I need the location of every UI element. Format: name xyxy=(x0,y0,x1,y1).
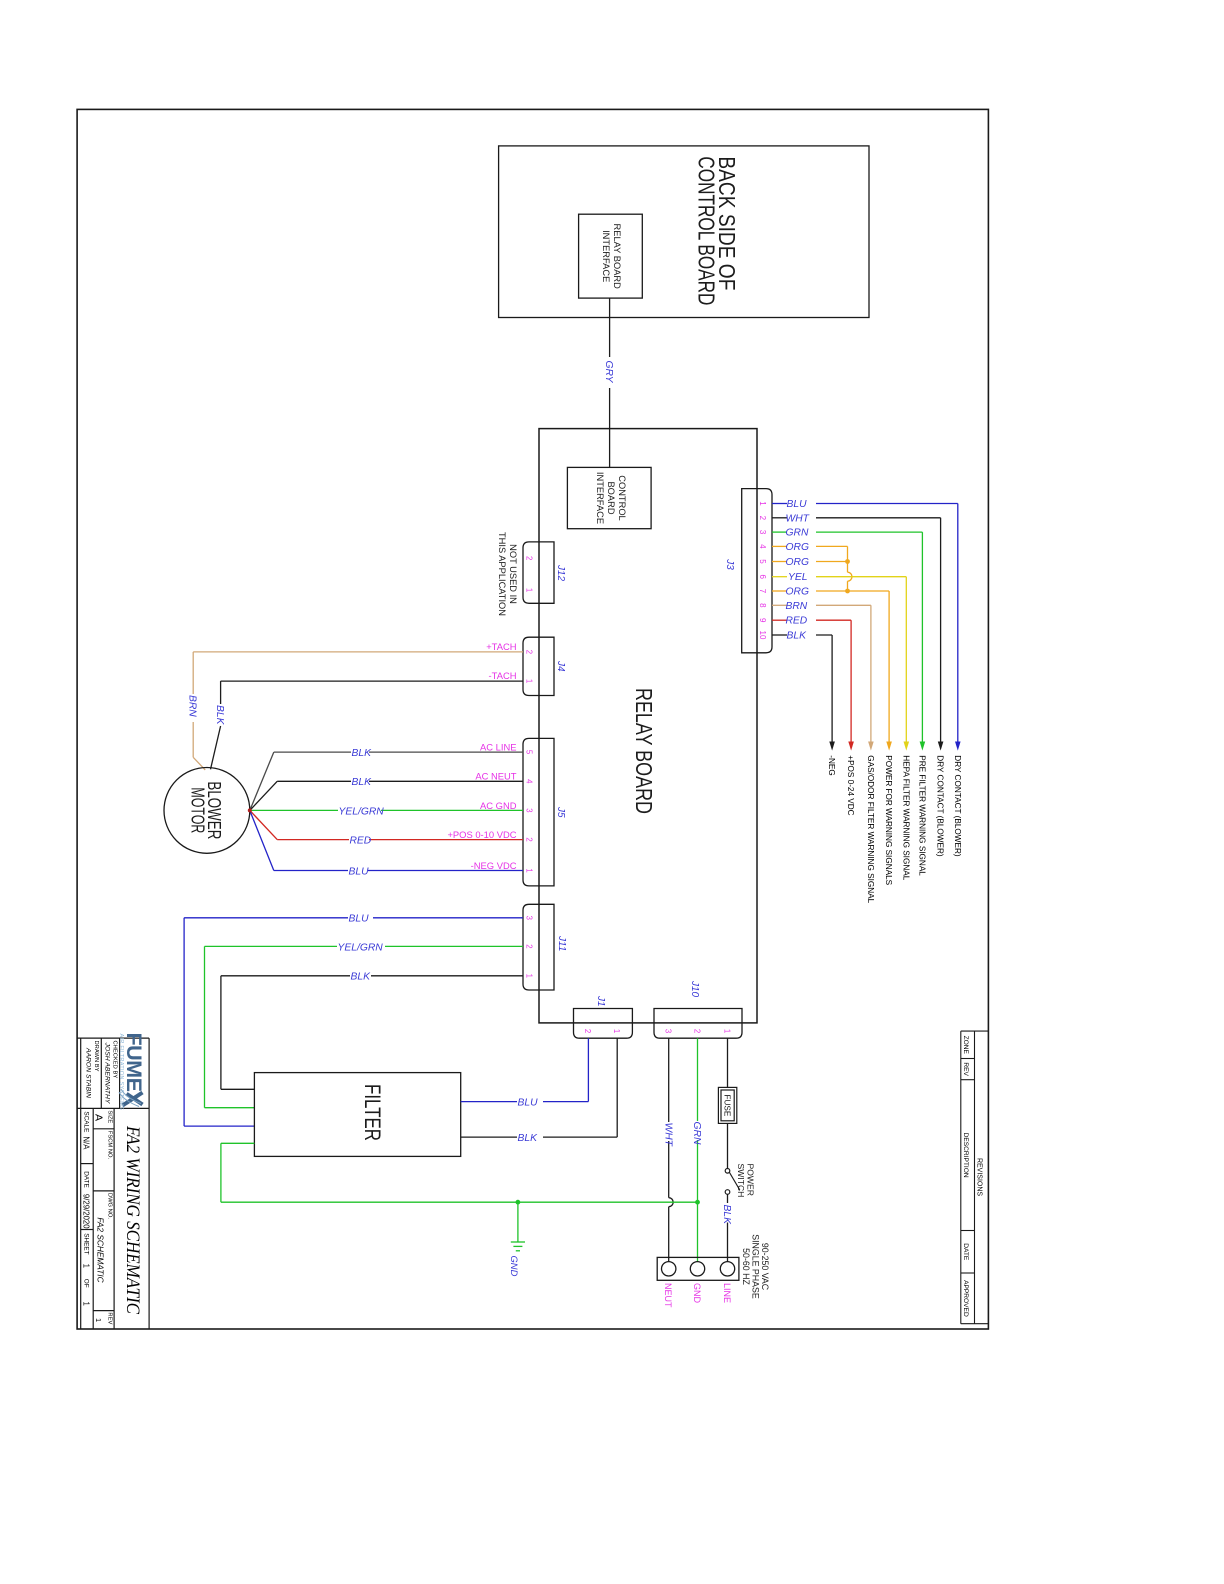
svg-text:2: 2 xyxy=(583,1029,592,1033)
svg-text:AC NEUT: AC NEUT xyxy=(475,771,516,782)
power switch SW1 xyxy=(725,1169,740,1195)
connector J3 xyxy=(742,489,772,653)
svg-text:REVISIONS: REVISIONS xyxy=(975,1158,982,1196)
svg-text:ORG: ORG xyxy=(786,557,809,568)
svg-text:DESCRIPTION: DESCRIPTION xyxy=(962,1133,969,1178)
revision table xyxy=(961,1031,989,1324)
connector J12 xyxy=(523,542,554,603)
svg-text:FUSE: FUSE xyxy=(722,1094,731,1116)
svg-text:2: 2 xyxy=(525,837,534,841)
svg-text:3: 3 xyxy=(525,808,534,812)
J3 signal labels xyxy=(827,755,962,903)
border frame xyxy=(77,109,988,1329)
svg-text:BLU: BLU xyxy=(518,1098,539,1109)
svg-text:DRY CONTACT (BLOWER): DRY CONTACT (BLOWER) xyxy=(936,755,945,857)
svg-text:J1: J1 xyxy=(595,995,606,1007)
svg-text:-NEG: -NEG xyxy=(827,755,836,775)
node GND tap junction xyxy=(516,1200,521,1205)
connector J10 xyxy=(654,1009,742,1039)
filter box xyxy=(254,1073,460,1157)
svg-text:REV: REV xyxy=(106,1312,112,1324)
svg-text:4: 4 xyxy=(525,779,534,784)
svg-text:FSCM NO.: FSCM NO. xyxy=(106,1131,112,1160)
svg-text:BLK: BLK xyxy=(721,1205,732,1226)
wire YEL/GRN AC GND pin3 xyxy=(250,809,523,811)
svg-text:50-60 HZ: 50-60 HZ xyxy=(741,1248,751,1285)
svg-text:GND: GND xyxy=(509,1256,520,1277)
svg-text:SHEET: SHEET xyxy=(83,1233,90,1254)
FUMEX logo xyxy=(118,1033,146,1111)
svg-text:GND: GND xyxy=(692,1283,702,1304)
wire RED J3 pin9 xyxy=(772,620,851,742)
svg-text:J10: J10 xyxy=(689,980,700,998)
terminal LINE xyxy=(720,1262,734,1276)
terminal GND xyxy=(690,1262,704,1276)
svg-text:J4: J4 xyxy=(555,660,566,672)
svg-text:FA2 SCHEMATIC: FA2 SCHEMATIC xyxy=(96,1217,106,1283)
svg-text:+POS 0-10 VDC: +POS 0-10 VDC xyxy=(447,829,516,840)
svg-text:DRY CONTACT (BLOWER): DRY CONTACT (BLOWER) xyxy=(953,755,962,857)
svg-text:AARON STABIN: AARON STABIN xyxy=(85,1047,92,1098)
svg-text:APPROVED: APPROVED xyxy=(962,1280,969,1317)
title text xyxy=(82,1041,144,1325)
wire ORG J3 pin7 xyxy=(772,591,889,742)
svg-text:BLK: BLK xyxy=(352,748,373,759)
svg-text:ORG: ORG xyxy=(786,542,809,553)
svg-text:SWITCH: SWITCH xyxy=(736,1164,746,1198)
svg-text:3: 3 xyxy=(664,1029,673,1033)
svg-text:10: 10 xyxy=(758,631,767,640)
svg-text:N/A: N/A xyxy=(82,1136,91,1150)
svg-text:WHT: WHT xyxy=(786,513,810,524)
svg-text:BLU: BLU xyxy=(349,866,370,877)
connector J4 xyxy=(523,637,554,695)
J3 pin numbers xyxy=(758,501,767,640)
J12 pin numbers xyxy=(525,556,534,592)
terminal block power entry xyxy=(657,1257,739,1280)
svg-text:FA2 WIRING SCHEMATIC: FA2 WIRING SCHEMATIC xyxy=(122,1125,143,1314)
svg-text:REV: REV xyxy=(962,1062,969,1076)
svg-text:1: 1 xyxy=(525,679,534,683)
svg-text:DWG NO.: DWG NO. xyxy=(106,1193,112,1219)
svg-text:9/29/2020: 9/29/2020 xyxy=(82,1194,91,1229)
blower motor xyxy=(164,768,250,854)
svg-text:GRN: GRN xyxy=(691,1122,702,1145)
svg-text:POWER FOR WARNING SIGNALS: POWER FOR WARNING SIGNALS xyxy=(884,755,893,885)
fuse F1 xyxy=(718,1087,736,1123)
connector J5 xyxy=(523,738,554,886)
svg-text:AIR FILTRATION SYSTEMS: AIR FILTRATION SYSTEMS xyxy=(118,1034,124,1111)
svg-text:5: 5 xyxy=(758,559,767,564)
svg-text:1: 1 xyxy=(758,501,767,506)
svg-text:DRAWN BY: DRAWN BY xyxy=(93,1041,99,1072)
svg-text:J3: J3 xyxy=(724,558,735,570)
svg-text:AC LINE: AC LINE xyxy=(480,742,516,753)
svg-text:BRN: BRN xyxy=(187,695,198,717)
svg-text:LINE: LINE xyxy=(722,1283,732,1303)
svg-text:RED: RED xyxy=(786,616,808,627)
svg-text:8: 8 xyxy=(758,603,767,608)
wire BLK J11 pin1 xyxy=(221,976,523,1090)
wire BRN tach pin2 xyxy=(193,652,523,770)
svg-text:YEL/GRN: YEL/GRN xyxy=(338,942,384,953)
svg-text:GRY: GRY xyxy=(603,361,614,384)
svg-text:+TACH: +TACH xyxy=(486,641,516,652)
J1 pin numbers xyxy=(583,1029,621,1033)
wire YEL/GRN J11 pin2 xyxy=(205,946,524,1107)
svg-text:ORG: ORG xyxy=(786,587,809,598)
J10 pin numbers xyxy=(664,1029,732,1033)
wire GRY xyxy=(609,298,611,467)
svg-text:NOT USED IN: NOT USED IN xyxy=(508,544,518,604)
svg-text:1: 1 xyxy=(94,1318,103,1322)
note NOT USED IN THIS APPLICATION xyxy=(497,532,518,616)
wire BLK J10 pin1 to fuse xyxy=(727,1038,729,1262)
wire YEL J3 pin6 xyxy=(772,577,906,742)
connector J11 xyxy=(523,904,554,990)
node motor junction xyxy=(248,808,252,812)
svg-text:2: 2 xyxy=(525,556,534,560)
svg-text:-NEG VDC: -NEG VDC xyxy=(471,860,517,871)
ground symbol xyxy=(511,1242,525,1251)
svg-text:GAS/ODOR FILTER WARNING SIGNAL: GAS/ODOR FILTER WARNING SIGNAL xyxy=(866,755,875,903)
svg-text:BLU: BLU xyxy=(349,914,370,925)
svg-text:BLK: BLK xyxy=(787,631,808,642)
svg-text:A: A xyxy=(93,1114,105,1121)
svg-text:YEL/GRN: YEL/GRN xyxy=(339,806,385,817)
relay board interface box xyxy=(579,214,643,298)
svg-text:BLK: BLK xyxy=(352,777,373,788)
svg-text:1: 1 xyxy=(525,974,534,978)
svg-text:6: 6 xyxy=(758,574,767,579)
wire BLU J11 pin3 xyxy=(184,918,523,1126)
svg-text:+POS 0-24 VDC: +POS 0-24 VDC xyxy=(846,755,855,815)
wire ORG J3 pin4 jumper xyxy=(772,546,852,591)
wire BLU J1 pin2 xyxy=(461,1038,589,1101)
svg-text:3: 3 xyxy=(758,530,767,535)
wire BLK AC NEUT pin4 xyxy=(250,781,523,810)
svg-text:FILTER: FILTER xyxy=(360,1084,385,1141)
svg-text:5: 5 xyxy=(525,750,534,755)
svg-text:BLK: BLK xyxy=(518,1133,539,1144)
wire BLU J3 pin1 xyxy=(772,504,958,743)
svg-text:2: 2 xyxy=(525,650,534,654)
svg-text:CONTROL: CONTROL xyxy=(617,475,627,520)
wire BLK J1 pin1 xyxy=(461,1038,618,1137)
svg-text:POWER: POWER xyxy=(746,1164,756,1196)
svg-text:1: 1 xyxy=(525,868,534,872)
wire BLK J3 pin10 xyxy=(772,635,832,742)
svg-text:9: 9 xyxy=(758,618,767,623)
svg-text:NEUT: NEUT xyxy=(663,1283,673,1308)
wire to ground xyxy=(517,1202,519,1242)
relay board box xyxy=(539,429,757,1023)
svg-text:DATE: DATE xyxy=(83,1171,90,1188)
svg-text:AC GND: AC GND xyxy=(480,800,517,811)
svg-text:2: 2 xyxy=(758,516,767,521)
svg-text:2: 2 xyxy=(525,944,534,948)
wire GRN filter to gnd/j10 xyxy=(221,1143,698,1202)
terminal NEUT xyxy=(662,1262,676,1276)
wire WHT J3 pin2 xyxy=(772,518,941,742)
control board interface box xyxy=(567,467,651,528)
wire BLK AC LINE pin5 xyxy=(250,752,523,810)
svg-text:SIZE: SIZE xyxy=(106,1110,112,1123)
wire BLK tach pin1 xyxy=(211,681,524,769)
wire BLU -NEG pin1 xyxy=(250,811,523,871)
svg-text:SCALE: SCALE xyxy=(83,1111,90,1132)
svg-text:BLK: BLK xyxy=(214,705,225,726)
svg-text:BOARD: BOARD xyxy=(606,481,616,514)
svg-text:BRN: BRN xyxy=(786,601,808,612)
wire GRN J3 pin3 xyxy=(772,532,922,742)
svg-text:PRE FILTER WARNING SIGNAL: PRE FILTER WARNING SIGNAL xyxy=(917,755,926,876)
svg-text:FUME: FUME xyxy=(122,1033,146,1092)
svg-text:OF: OF xyxy=(83,1279,90,1288)
svg-text:4: 4 xyxy=(758,544,767,549)
svg-text:INTERFACE: INTERFACE xyxy=(595,472,605,524)
svg-text:YEL: YEL xyxy=(788,572,807,583)
J11 pin numbers xyxy=(525,916,534,978)
J5 pin numbers xyxy=(525,750,534,873)
svg-text:-TACH: -TACH xyxy=(489,670,517,681)
svg-text:1: 1 xyxy=(525,588,534,592)
svg-text:MOTOR: MOTOR xyxy=(188,787,208,833)
svg-text:J12: J12 xyxy=(555,564,566,582)
svg-text:SINGLE PHASE: SINGLE PHASE xyxy=(751,1234,761,1299)
J4 pin numbers xyxy=(525,650,534,684)
svg-text:90-250 VAC: 90-250 VAC xyxy=(760,1243,770,1291)
svg-text:J11: J11 xyxy=(556,935,567,951)
svg-text:RELAY BOARD: RELAY BOARD xyxy=(612,224,622,290)
wire RED +POS pin2 xyxy=(250,811,523,840)
svg-text:1: 1 xyxy=(722,1029,731,1033)
svg-text:J5: J5 xyxy=(555,806,566,818)
svg-text:THIS APPLICATION: THIS APPLICATION xyxy=(497,532,507,616)
svg-text:CONTROL BOARD: CONTROL BOARD xyxy=(694,156,720,305)
wire ORG J3 pin5 xyxy=(772,561,848,563)
svg-text:JOSH ABERNATHY: JOSH ABERNATHY xyxy=(104,1042,111,1104)
svg-text:BLU: BLU xyxy=(787,499,808,510)
svg-text:ZONE: ZONE xyxy=(962,1036,969,1055)
wire WHT J10 pin3 xyxy=(669,1038,674,1262)
svg-text:INTERFACE: INTERFACE xyxy=(601,230,611,282)
svg-text:2: 2 xyxy=(692,1029,701,1033)
node GRN junction xyxy=(695,1200,700,1205)
svg-text:7: 7 xyxy=(758,589,767,594)
svg-text:DATE: DATE xyxy=(962,1243,969,1261)
wire BRN J3 pin8 xyxy=(772,605,871,742)
svg-text:CHECKED BY: CHECKED BY xyxy=(111,1041,117,1079)
note 90-250 VAC SINGLE PHASE 50-60 HZ xyxy=(741,1234,770,1299)
svg-text:1: 1 xyxy=(612,1029,621,1033)
back side of control board box xyxy=(499,146,869,318)
wire GRN J10 pin2 xyxy=(697,1038,699,1262)
svg-text:GRN: GRN xyxy=(786,528,809,539)
svg-text:1: 1 xyxy=(82,1302,91,1306)
svg-text:RELAY BOARD: RELAY BOARD xyxy=(631,688,657,814)
connector J1 xyxy=(574,1009,633,1039)
svg-text:WHT: WHT xyxy=(662,1123,673,1147)
title block xyxy=(77,1038,149,1329)
svg-text:1: 1 xyxy=(82,1264,91,1268)
svg-text:BLK: BLK xyxy=(351,972,372,983)
svg-text:RED: RED xyxy=(350,836,372,847)
svg-text:3: 3 xyxy=(525,916,534,920)
svg-text:HEPA FILTER WARNING SIGNAL: HEPA FILTER WARNING SIGNAL xyxy=(901,755,910,880)
